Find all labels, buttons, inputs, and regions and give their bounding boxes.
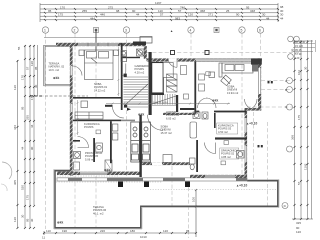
svg-text:175: 175	[26, 195, 30, 200]
svg-text:57: 57	[26, 66, 30, 70]
svg-text:A: A	[285, 79, 287, 83]
svg-text:44: 44	[21, 146, 25, 150]
svg-text:3: 3	[125, 28, 127, 32]
svg-text:368: 368	[291, 135, 295, 140]
svg-text:57: 57	[178, 9, 182, 13]
svg-text:275: 275	[108, 5, 113, 9]
svg-text:4.50 m2: 4.50 m2	[218, 130, 228, 134]
svg-text:55: 55	[17, 46, 21, 50]
svg-text:57: 57	[160, 13, 164, 17]
svg-text:13.94 m2: 13.94 m2	[227, 91, 239, 95]
svg-text:5: 5	[241, 28, 243, 32]
svg-text:6: 6	[259, 28, 261, 32]
svg-text:95: 95	[291, 48, 295, 52]
svg-text:15.37 m2: 15.37 m2	[161, 131, 173, 135]
svg-text:368: 368	[200, 9, 205, 13]
svg-text:1: 1	[44, 28, 46, 32]
svg-text:983: 983	[175, 16, 180, 20]
svg-text:446: 446	[13, 125, 17, 130]
svg-text:▲: ▲	[170, 29, 173, 33]
svg-text:▲+0.10: ▲+0.10	[236, 184, 247, 188]
svg-text:446: 446	[100, 13, 105, 17]
svg-text:175: 175	[297, 115, 301, 120]
svg-text:⊕kk: ⊕kk	[212, 99, 218, 103]
svg-text:190: 190	[62, 229, 67, 233]
svg-text:175: 175	[30, 95, 34, 100]
svg-text:57 30: 57 30	[295, 52, 302, 56]
svg-text:120: 120	[163, 229, 168, 233]
svg-text:348: 348	[250, 9, 255, 13]
svg-text:⊕kk: ⊕kk	[104, 168, 110, 172]
svg-text:110: 110	[46, 229, 51, 233]
svg-text:30: 30	[34, 84, 38, 88]
svg-text:95: 95	[26, 218, 30, 222]
svg-text:30: 30	[30, 218, 34, 222]
svg-text:170: 170	[60, 5, 65, 9]
svg-text:444: 444	[90, 16, 95, 20]
svg-text:B: B	[285, 88, 287, 92]
svg-text:95: 95	[186, 229, 190, 233]
svg-text:100: 100	[192, 197, 196, 202]
svg-text:175: 175	[58, 13, 63, 17]
svg-text:120: 120	[13, 217, 17, 222]
svg-text:44: 44	[136, 13, 140, 17]
svg-text:30: 30	[21, 214, 25, 218]
svg-text:102: 102	[297, 70, 301, 75]
svg-text:44: 44	[30, 124, 34, 128]
svg-text:25: 25	[226, 9, 230, 13]
svg-text:95: 95	[48, 9, 52, 13]
svg-text:180: 180	[130, 229, 135, 233]
svg-text:255: 255	[26, 115, 30, 120]
svg-text:120: 120	[30, 61, 34, 66]
svg-text:120: 120	[13, 85, 17, 90]
svg-text:1197: 1197	[155, 1, 162, 5]
svg-text:95: 95	[34, 66, 38, 70]
svg-text:4: 4	[190, 28, 192, 32]
svg-text:▲+0.10: ▲+0.10	[246, 122, 257, 126]
svg-text:10.6. m2: 10.6. m2	[49, 68, 60, 72]
svg-text:1010: 1010	[140, 235, 147, 239]
svg-text:271: 271	[208, 13, 213, 17]
svg-text:255: 255	[82, 9, 87, 13]
svg-text:305: 305	[13, 180, 17, 185]
svg-text:14.22 m2: 14.22 m2	[94, 88, 106, 92]
svg-text:90: 90	[30, 146, 34, 150]
svg-text:4.20 m2: 4.20 m2	[135, 70, 145, 74]
svg-text:170: 170	[21, 75, 25, 80]
svg-text:40.1. m2: 40.1. m2	[93, 211, 104, 215]
svg-text:⊕kk: ⊕kk	[138, 113, 144, 117]
svg-text:120: 120	[295, 56, 300, 60]
svg-text:120: 120	[188, 13, 193, 17]
svg-text:11: 11	[42, 236, 45, 240]
svg-text:4.85 m2: 4.85 m2	[221, 155, 231, 159]
svg-text:44: 44	[266, 16, 270, 20]
svg-text:⊕kk: ⊕kk	[53, 76, 59, 80]
svg-text:⊕kk: ⊕kk	[57, 221, 63, 225]
svg-text:98: 98	[116, 9, 120, 13]
svg-text:30: 30	[304, 66, 308, 70]
svg-text:120: 120	[296, 230, 301, 234]
svg-text:2: 2	[74, 28, 76, 32]
svg-text:95 25: 95 25	[295, 48, 302, 52]
svg-text:90: 90	[236, 13, 240, 17]
svg-text:57: 57	[297, 181, 301, 185]
svg-text:325: 325	[296, 221, 301, 225]
svg-text:44: 44	[280, 17, 284, 21]
svg-text:520: 520	[21, 185, 25, 190]
svg-text:POVRS: POVRS	[84, 125, 94, 129]
svg-text:5.06 m2: 5.06 m2	[85, 157, 95, 161]
svg-text:1192: 1192	[304, 163, 308, 170]
svg-text:15 120: 15 120	[295, 44, 303, 48]
svg-text:95: 95	[21, 106, 25, 110]
svg-text:6.05 m2: 6.05 m2	[166, 116, 176, 120]
svg-text:226: 226	[100, 229, 105, 233]
